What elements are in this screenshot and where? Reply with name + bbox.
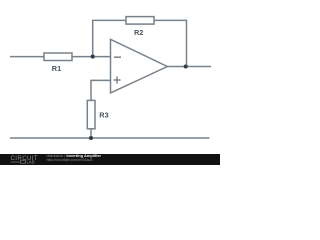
svg-text:R2: R2 [134,28,143,37]
svg-text:R1: R1 [52,64,61,73]
svg-text:draulstick / Inverting Amplifi: draulstick / Inverting Amplifier [47,153,102,158]
svg-text:LAB: LAB [27,159,35,164]
svg-text:R3: R3 [99,110,108,119]
svg-text:http://circuitlab.com/c/r53au5: http://circuitlab.com/c/r53au5 [47,158,93,162]
